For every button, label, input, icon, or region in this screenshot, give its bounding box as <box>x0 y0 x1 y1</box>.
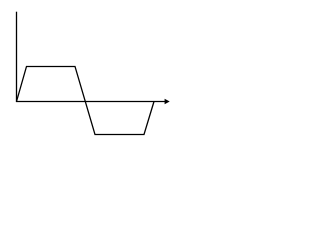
x-axis arrowhead <box>165 99 170 104</box>
x-axis (horizontal time axis) <box>16 101 168 103</box>
y-axis (vertical axis) <box>16 12 18 102</box>
trapezoidal waveform <box>17 67 155 135</box>
